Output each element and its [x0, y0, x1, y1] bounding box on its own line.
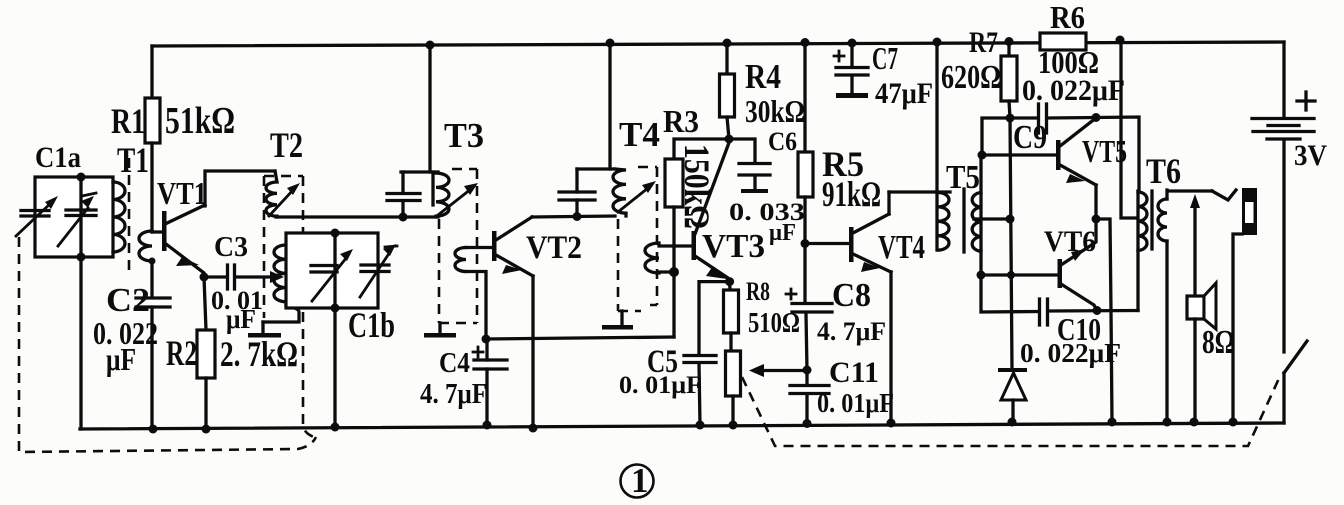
svg-text:C1b: C1b: [348, 305, 395, 345]
dashed gang link to switch: [742, 374, 1281, 446]
capacitor C10: [1040, 299, 1048, 325]
wire R8 to volume pot: [729, 333, 732, 351]
potentiometer RP volume: [726, 351, 741, 396]
svg-text:C11: C11: [829, 356, 879, 389]
svg-text:C3: C3: [214, 231, 248, 263]
capacitor C2: [136, 298, 170, 307]
capacitor C9: [1010, 116, 1037, 119]
node T1 secondary bottom: [149, 258, 156, 265]
wire speaker plug arrow: [1193, 205, 1196, 296]
capacitor across T3 primary: [401, 172, 404, 193]
wire T5 supply riser primary line: [935, 42, 938, 250]
svg-text:C9: C9: [1013, 119, 1047, 156]
svg-text:T1: T1: [117, 140, 149, 180]
transistor VT4: [849, 227, 854, 262]
wire C1a ganged rotor line down: [79, 257, 82, 429]
circled figure number 1: [621, 465, 654, 498]
svg-text:8Ω: 8Ω: [1202, 324, 1235, 361]
svg-text:C8: C8: [832, 277, 871, 314]
capacitor C11: [805, 370, 808, 385]
earphone jack plug: [1242, 188, 1257, 235]
svg-text:μF: μF: [226, 304, 256, 334]
battery GB 3V: [1282, 42, 1285, 117]
svg-text:R3: R3: [663, 103, 699, 139]
svg-text:4. 7μF: 4. 7μF: [420, 379, 487, 410]
node rail right of R6: [1116, 36, 1125, 45]
node center tap bias: [1006, 215, 1015, 224]
resistor R5: [803, 42, 806, 152]
wire T5 center tap to bias node: [974, 217, 1010, 220]
svg-text:T5: T5: [946, 159, 980, 196]
capacitor C7: [850, 43, 853, 66]
diode VD: [998, 368, 1027, 372]
svg-text:C2: C2: [106, 282, 150, 319]
ground T3 shield: [438, 323, 441, 333]
wire AGC line to R3: [486, 337, 674, 339]
resistor R2: [197, 330, 215, 378]
wire T4 secondary bottom: [659, 270, 674, 273]
svg-text:0. 022μF: 0. 022μF: [1022, 74, 1125, 107]
transformer T2 secondary coil on C1b: [274, 245, 286, 302]
svg-text:VT4: VT4: [878, 229, 925, 266]
wire VT6 base: [981, 273, 1056, 276]
resistor R1: [145, 98, 160, 143]
speaker BL: [1187, 296, 1204, 319]
svg-text:4. 7μF: 4. 7μF: [817, 317, 886, 346]
jack break contact: [1212, 190, 1236, 200]
resistor R4: [725, 43, 728, 74]
transistor VT6: [1058, 259, 1063, 288]
wire T6 secondary top to jack: [1167, 190, 1212, 199]
node T5 riser at rail: [933, 38, 942, 47]
plus sign battery: [1297, 92, 1315, 110]
resistor R3: [674, 139, 729, 159]
wire VT1 emitter down to R2: [204, 277, 206, 330]
svg-text:C6: C6: [768, 127, 797, 156]
svg-text:μF: μF: [769, 220, 796, 246]
node C1a bottom: [77, 253, 86, 262]
transistor VT1: [162, 211, 167, 251]
node T6 secondary ground: [1163, 418, 1172, 427]
wire emitter tee down: [1096, 219, 1112, 422]
wire VT5 emitter down: [1094, 185, 1097, 219]
wire bias vertical to diode: [1010, 118, 1012, 369]
transformer T2 adjustable core arrow: [269, 189, 294, 216]
wire R1 bottom to VT1 base: [150, 143, 153, 232]
ground T4 shield: [620, 311, 623, 325]
wire VT2 collector to T4: [532, 216, 615, 217]
wire T2 secondary bottom to ground: [263, 302, 299, 322]
svg-text:C4: C4: [439, 347, 470, 379]
wire T1 secondary bottom to C2: [150, 261, 153, 297]
transistor VT5: [1056, 140, 1061, 170]
node R5 bottom VT4 base: [801, 239, 810, 248]
svg-text:91kΩ: 91kΩ: [822, 174, 881, 214]
capacitor C1b left variable section: [311, 266, 337, 273]
wire C10 right to T6: [1048, 309, 1138, 313]
node T4 riser at rail: [606, 39, 615, 48]
wire T2 primary bottom to T3: [276, 215, 438, 218]
node C1a top: [77, 173, 86, 182]
node VT5 collector output: [1092, 113, 1101, 122]
node T4 cap bottom: [573, 212, 582, 221]
capacitor C1a left variable section: [21, 211, 49, 217]
wire T3 secondary top to VT2 base: [466, 246, 492, 249]
svg-text:VT6: VT6: [1044, 225, 1096, 258]
wire VT4 collector riser: [887, 192, 890, 214]
transformer T5 primary coil: [938, 193, 949, 251]
transformer T5 secondary coil: [972, 193, 981, 252]
transformer T2 primary coil: [266, 171, 277, 217]
svg-text:C1a: C1a: [35, 141, 81, 174]
node VT5 base tee: [978, 151, 987, 160]
node VT1 emitter junction: [200, 273, 209, 282]
capacitor C1b frame: [286, 233, 378, 308]
resistor R7: [1007, 42, 1010, 56]
wire jack sleeve to ground: [1233, 234, 1242, 422]
node jack ground: [1229, 418, 1238, 427]
transformer T6 core: [1150, 191, 1153, 249]
svg-text:47μF: 47μF: [875, 77, 933, 110]
svg-text:R1: R1: [111, 101, 145, 141]
wire R7 jog to VT5 base: [982, 118, 1010, 155]
node VT6 collector: [1093, 306, 1102, 315]
plus sign C8: [786, 289, 796, 299]
transformer T6 primary coil: [1136, 191, 1139, 311]
transformer T1 dashed core: [128, 158, 131, 272]
wire T4 supply riser: [608, 43, 611, 169]
node C1b bottom: [331, 304, 340, 313]
transformer T4 primary coil: [613, 169, 626, 216]
transformer T4 core arrow: [618, 188, 648, 212]
transformer T4 dashed shield: [618, 167, 657, 311]
node T3 cap bottom: [399, 213, 408, 222]
svg-text:VT2: VT2: [526, 230, 582, 266]
transformer T1 secondary coil: [139, 231, 152, 261]
wire pot wiper with arrow: [762, 369, 808, 372]
plus sign C4: [473, 347, 483, 357]
switch S power: [1284, 341, 1307, 373]
node R7 at rail: [1005, 37, 1014, 46]
wire VT1 base stub: [152, 230, 163, 233]
node bias line crossing: [1007, 271, 1015, 279]
node VT2 emitter ground: [529, 424, 538, 433]
wire T3 supply riser: [428, 45, 431, 172]
svg-text:0. 022μF: 0. 022μF: [1020, 338, 1121, 368]
node R4 at rail: [723, 39, 732, 48]
wire bottom ground rail: [80, 423, 1284, 429]
capacitor C6: [729, 139, 755, 162]
dashed gang enclosure left: [19, 237, 316, 452]
capacitor C4: [474, 360, 507, 369]
svg-text:R8: R8: [746, 277, 770, 306]
transformer T3 primary coil: [433, 172, 449, 217]
node diode ground: [1008, 418, 1017, 427]
capacitor C5: [699, 282, 730, 355]
resistor R6 in rail: [1040, 33, 1086, 50]
node T5 secondary bottom VT6 base: [977, 271, 986, 280]
svg-text:3V: 3V: [1294, 139, 1327, 172]
ground T2 secondary: [261, 322, 264, 333]
svg-text:C7: C7: [872, 40, 898, 76]
node C11 ground: [803, 419, 812, 428]
svg-text:T4: T4: [619, 115, 660, 154]
node VT3 emitter junction: [725, 277, 734, 286]
node VT4 emitter ground: [887, 419, 896, 428]
node speaker ground: [1190, 418, 1199, 427]
node C5 ground: [696, 421, 705, 430]
capacitor C8: [803, 244, 806, 304]
svg-text:150kΩ: 150kΩ: [677, 144, 717, 229]
transformer T3 dashed shield: [439, 169, 477, 323]
node tee ground: [1108, 418, 1117, 427]
wire T3 top link: [401, 170, 438, 173]
wire top supply rail: [152, 42, 1284, 46]
wire VT5 collector to T6 primary top: [1096, 117, 1139, 191]
wire T5 secondary line: [981, 155, 1039, 312]
node C2 ground: [149, 425, 158, 434]
svg-text:R7: R7: [969, 26, 998, 59]
node R7 bottom: [1006, 114, 1015, 123]
node T3 riser at rail: [426, 41, 435, 50]
node R2 ground: [202, 425, 211, 434]
svg-text:T3: T3: [444, 116, 484, 155]
svg-text:51kΩ: 51kΩ: [165, 100, 235, 142]
wire R5 to VT4 base: [805, 242, 849, 245]
transformer T2 dashed shield: [264, 175, 303, 178]
node VT3 collector junction: [725, 135, 734, 144]
wire VT5 base: [982, 153, 1056, 156]
node R5 at rail: [801, 38, 810, 47]
node pot ground: [729, 421, 738, 430]
svg-text:T6: T6: [1146, 151, 1181, 191]
svg-text:μF: μF: [106, 341, 136, 377]
transistor VT3: [692, 231, 697, 260]
node C8 C11 wiper junction: [803, 366, 812, 375]
svg-text:1: 1: [631, 461, 649, 500]
svg-text:R2: R2: [166, 333, 197, 373]
transformer T6 secondary coil: [1158, 199, 1167, 241]
wire C3 to T2 secondary tap with arrow: [236, 275, 272, 278]
svg-text:30kΩ: 30kΩ: [745, 93, 805, 129]
svg-text:620Ω: 620Ω: [941, 59, 1001, 96]
wire VT1 collector up and right to T2: [205, 171, 275, 206]
wire T4 top link: [577, 167, 615, 170]
wire T4 secondary top to VT3 base: [659, 244, 691, 247]
resistor R8: [728, 282, 732, 290]
plus sign C7: [834, 51, 844, 61]
svg-text:2. 7kΩ: 2. 7kΩ: [220, 334, 298, 374]
node C7 at rail: [848, 39, 857, 48]
capacitor across T4 primary: [575, 169, 578, 192]
wire R3 bottom to AGC node: [672, 207, 675, 337]
wire VT2 emitter to ground rail: [531, 276, 534, 428]
capacitor C1a frame: [35, 177, 113, 257]
transistor VT2: [492, 231, 497, 261]
node C4 top: [482, 335, 491, 344]
capacitor C1b right variable section: [361, 265, 389, 272]
transformer T1 primary coil: [113, 182, 125, 252]
node T4 secondary bottom: [669, 267, 679, 277]
svg-text:VT5: VT5: [1082, 133, 1127, 169]
transformer T4 secondary coil: [645, 243, 659, 273]
wire T5 primary top link: [889, 190, 950, 193]
transformer T3 core arrow: [438, 189, 471, 215]
wire VT4 emitter to ground: [889, 272, 892, 423]
wire C1b rotor down to rail: [333, 308, 336, 427]
node VT5 emitter: [1092, 215, 1101, 224]
svg-text:510Ω: 510Ω: [748, 308, 800, 339]
wire rail drop to T6 center tap: [1121, 40, 1137, 218]
svg-text:R4: R4: [745, 57, 781, 96]
svg-text:VT3: VT3: [702, 228, 765, 265]
wire R2 bottom lead: [204, 378, 207, 429]
capacitor C3: [204, 275, 225, 278]
capacitor C1a right variable section: [66, 210, 96, 216]
wire T6 secondary bottom: [1165, 241, 1168, 422]
node C1b top: [331, 229, 340, 238]
wire R1 top lead from rail: [150, 46, 153, 98]
svg-text:VT1: VT1: [157, 175, 207, 211]
svg-text:T2: T2: [270, 125, 303, 165]
svg-text:0. 01μF: 0. 01μF: [619, 372, 702, 399]
node C1b ground: [331, 423, 340, 432]
transformer T5 core: [962, 189, 965, 252]
svg-text:R6: R6: [1050, 0, 1085, 35]
transformer T3 secondary coil: [455, 248, 466, 272]
svg-text:0. 01μF: 0. 01μF: [817, 388, 894, 418]
wire T3 secondary bottom down: [466, 272, 486, 340]
node C4 ground: [483, 421, 492, 430]
